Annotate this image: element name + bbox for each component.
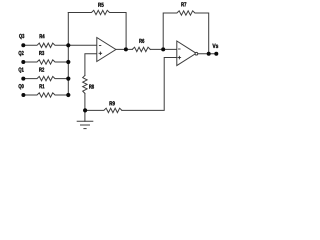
label Q3 bbox=[19, 34, 24, 39]
wire R8 bottom to ground bbox=[84, 93, 86, 121]
node junction R8/R9/ground bbox=[83, 108, 87, 112]
label Q0 bbox=[19, 84, 24, 89]
label R1 bbox=[39, 84, 44, 88]
node junction R7/output bbox=[207, 52, 211, 56]
node input terminal Q1 bbox=[21, 77, 25, 81]
op-amp U2 bbox=[177, 41, 196, 66]
wire to U1 non-inverting input bbox=[85, 54, 97, 76]
label R6 bbox=[139, 39, 144, 43]
wire R6 to U2 inverting input bbox=[150, 48, 177, 50]
op-amp U1 bbox=[97, 38, 116, 62]
ground bbox=[77, 121, 94, 128]
node junction bus/R1 bbox=[66, 93, 70, 97]
node input terminal Q2 bbox=[21, 60, 25, 64]
label R3 bbox=[39, 51, 44, 55]
node input terminal Q3 bbox=[21, 43, 25, 47]
label R5 bbox=[98, 3, 103, 7]
node output terminal Vs bbox=[214, 52, 218, 56]
node junction U1 output node bbox=[124, 47, 128, 51]
label Q1 bbox=[19, 67, 24, 72]
label Vs bbox=[212, 44, 218, 48]
resistor R2 bbox=[23, 76, 68, 80]
summing bus vertical wire bbox=[67, 13, 69, 96]
node junction bus/R4 bbox=[66, 43, 70, 47]
resistor R3 bbox=[23, 60, 68, 64]
resistor R9 bbox=[85, 108, 122, 112]
label R4 bbox=[40, 34, 45, 38]
resistor R1 bbox=[23, 93, 68, 97]
node junction U2 inverting node bbox=[161, 47, 165, 51]
node junction bus/R2 bbox=[66, 77, 70, 81]
resistor R4 bbox=[23, 43, 68, 47]
label R2 bbox=[39, 67, 44, 71]
label R7 bbox=[181, 2, 186, 6]
wire R9 to U2 non-inverting input bbox=[122, 58, 177, 111]
wire to U1 inverting input bbox=[68, 44, 97, 46]
wire U1 output bbox=[116, 48, 132, 50]
U2 output terminal circle bbox=[195, 52, 198, 55]
label Q2 bbox=[19, 51, 24, 56]
resistor R6 bbox=[132, 47, 150, 51]
node input terminal Q0 bbox=[21, 93, 25, 97]
label R8 bbox=[89, 84, 94, 88]
resistor R8 bbox=[83, 75, 87, 93]
resistor R7 feedback U2-input-to-output bbox=[163, 11, 209, 54]
node junction bus/R3 bbox=[66, 60, 70, 64]
resistor R5 feedback bus-to-U1-output bbox=[68, 10, 126, 49]
label R9 bbox=[110, 101, 115, 105]
wire U2 output to Vs bbox=[198, 53, 217, 55]
